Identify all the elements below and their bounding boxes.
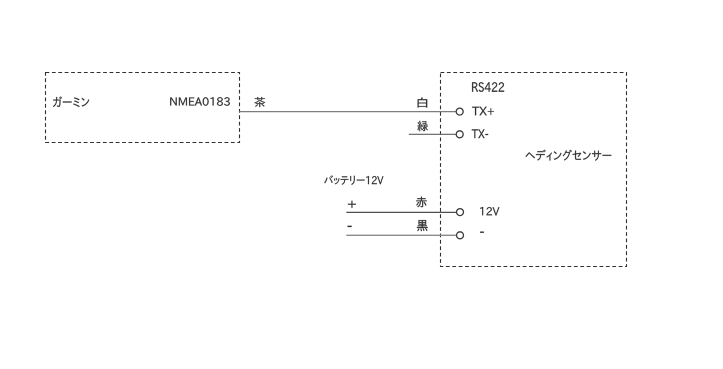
- wire color label: 茶 (brown): [254, 97, 265, 107]
- wire: black, battery - to minus pin: [346, 234, 456, 236]
- wire: NMEA output, brown to white, to TX+: [239, 111, 456, 113]
- terminal circle: TX-: [456, 131, 463, 138]
- battery - terminal label: [348, 226, 352, 227]
- pin label: TX-: [472, 129, 488, 138]
- pin label: 12V: [480, 207, 499, 216]
- pin label: TX+: [472, 107, 494, 116]
- battery + terminal label: [348, 201, 356, 208]
- label: RS422: [472, 82, 504, 92]
- label: ヘディングセンサー (heading sensor): [526, 150, 612, 161]
- wire: green to TX-: [409, 133, 457, 135]
- pin label: - (minus): [480, 232, 484, 233]
- component box: heading sensor (dashed): [441, 73, 627, 267]
- label: NMEA0183 port: [170, 97, 230, 106]
- wire color label: 黒 (black): [417, 220, 428, 231]
- component box: Garmin chartplotter (dashed): [46, 73, 240, 143]
- label: バッテリー12V (battery 12V): [324, 175, 383, 185]
- terminal circle: minus: [457, 232, 464, 239]
- label: ガーミン (Garmin): [53, 96, 89, 107]
- wire color label: 白 (white): [418, 98, 428, 108]
- terminal circle: TX+: [456, 108, 463, 115]
- wire color label: 赤 (red): [416, 197, 427, 208]
- terminal circle: 12V: [457, 209, 464, 216]
- wire: red, battery + to 12V pin: [346, 211, 456, 213]
- wire color label: 緑 (green): [417, 121, 428, 132]
